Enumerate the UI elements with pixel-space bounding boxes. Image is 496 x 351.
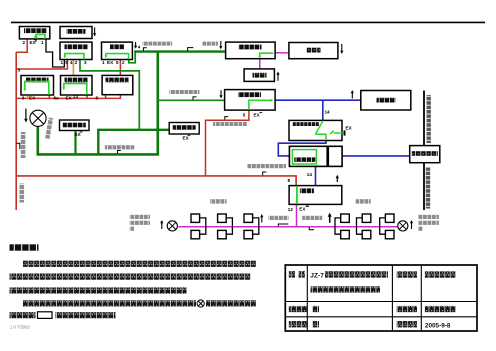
cell 名称 <box>289 271 295 277</box>
arrow up on blue before B14 <box>351 90 354 99</box>
brake cylinder unit B3 <box>380 214 394 239</box>
brake cylinder unit B1 <box>335 214 349 239</box>
svg-text:3: 3 <box>22 95 25 100</box>
rule: cab end 2 vertical line <box>423 163 425 210</box>
label 制动缸2 <box>356 199 371 203</box>
cock 折角塞门 on green bus <box>188 48 194 51</box>
wire: red branch from brake valve B1 port 2 <box>16 39 27 52</box>
wire: red pipe through valve B7 from relay valve B4 <box>119 60 121 76</box>
svg-text:EX: EX <box>254 112 261 117</box>
cell 制图者 <box>289 321 308 327</box>
cell 制图时间 <box>397 321 417 327</box>
wire: middle-pressure pipe 4 (orange) to valve B6 <box>72 60 74 76</box>
reversing valve B18 第一交向阀 <box>410 146 440 163</box>
wire: thick green vertical x157.8 <box>157 52 160 156</box>
svg-text:2: 2 <box>23 40 26 45</box>
svg-text:13: 13 <box>73 94 79 99</box>
legend gauge symbol <box>197 300 204 307</box>
label 分配阀列车管塞门 <box>169 90 199 94</box>
brake cylinder B13 制动缸 <box>244 69 274 82</box>
solenoid valve B15 DBE气动电磁阀 <box>289 120 346 140</box>
legend line 1 <box>23 261 256 267</box>
svg-text:5: 5 <box>65 60 68 65</box>
wire: red bus y98.4 under row-2 valves <box>16 97 121 99</box>
svg-text:EX: EX <box>30 40 37 45</box>
wire: equalizing-reservoir pipe 1 (black) B1 to B3 <box>46 39 64 67</box>
arrow up bold cluster B left <box>328 213 332 223</box>
distributor B10 机车分配阀 <box>225 90 276 111</box>
valve B3 支配拉摆阀 <box>60 42 92 59</box>
svg-text:8a: 8a <box>54 95 60 100</box>
arrow up above B17 <box>336 175 339 182</box>
label 作用阀总风缸支管塞门 <box>248 164 287 168</box>
svg-text:3: 3 <box>18 68 21 73</box>
label 一端司机室制动缸压力表 (3 lines) <box>130 215 151 231</box>
label 中继阀列车管塞门 <box>143 42 173 46</box>
arrow down right of B4 with port 4 <box>134 42 137 49</box>
svg-text:EX: EX <box>29 95 36 100</box>
wire: thick green drop x98.3 <box>97 129 99 156</box>
svg-text:EX: EX <box>75 132 82 137</box>
border top rule <box>11 21 485 23</box>
wire: magenta drop B11 to brake cylinder B13 <box>259 59 261 69</box>
vertical label on left bus (lower) <box>20 184 25 203</box>
svg-text:3: 3 <box>84 60 87 65</box>
reservoir B14 作用风缸 <box>361 91 411 111</box>
reservoir B12 副风缸 <box>289 43 338 59</box>
legend line 3 <box>10 287 187 293</box>
arrow up right of B13 <box>276 72 279 81</box>
wire: red horizontal branch y69 to valve B3 port 5 <box>16 60 67 69</box>
gauge G2 brake cylinder pressure gauge (end 1) <box>167 221 177 231</box>
cell 设计者 <box>289 306 308 312</box>
label 折角塞门() <box>202 42 218 46</box>
svg-text:1: 1 <box>61 60 64 65</box>
valve B6 客货车转换 <box>61 76 93 96</box>
cell 机务段教育室 row2 <box>425 306 456 312</box>
label 后台车塞门 <box>302 216 322 220</box>
cock on left red bus <box>16 143 20 149</box>
legend line 5a <box>10 312 36 318</box>
gauge G1 train pipe pressure gauge <box>30 110 46 126</box>
arrow down right of B2 <box>93 28 96 37</box>
wire: brake cylinder pipe 12 (magenta) B11 to aux reservoir B12 <box>275 52 289 54</box>
wire: blue B16 to first reversing valve B18 <box>342 155 410 157</box>
cell 周 <box>313 306 319 312</box>
title table frame <box>285 265 477 331</box>
wire: green branch pipe 3 to locomotive distributor B10 <box>158 99 225 101</box>
cock 中继阀列车管塞门 on green bus <box>143 48 146 51</box>
cock 3阀间列车管塞门 <box>117 151 120 154</box>
arrow up left of gauge G2 <box>160 220 163 229</box>
wire: magenta drop from action valve B17 <box>296 204 298 226</box>
wire: thick green drop from gauge G1 <box>36 126 39 155</box>
valve B9 紧急放风阀 <box>169 123 199 135</box>
wire: brake cylinder magenta bus y226.8 <box>178 226 397 228</box>
action valve B17 作用阀 <box>289 186 342 205</box>
arrow down right of B12 <box>340 44 343 54</box>
distributor B11 车辆分配阀 <box>226 42 276 59</box>
wire: main-reservoir pipe (red) left vertical bus <box>15 52 17 210</box>
relay valve B4 中继阀 <box>102 42 133 59</box>
wire: red from distributing valve B10 down-left <box>206 110 249 176</box>
legend box symbol <box>38 312 53 319</box>
cell 机务段教育室 <box>425 271 456 277</box>
brake cylinder unit A3 <box>244 214 259 239</box>
vertical label on left bus (upper) <box>21 132 26 158</box>
cock 作用阀总风缸支管塞门 <box>263 172 267 175</box>
arrow down left of gauge G1 <box>24 109 27 123</box>
label 分配阀总风缸支管塞门 <box>213 122 247 126</box>
label 前台车塞门 <box>269 216 289 220</box>
arrow down on green bus before B11 <box>219 41 222 49</box>
vertical label cab end 2 <box>426 168 430 209</box>
wire: red drop from valve B7 left port <box>105 95 107 99</box>
wire: train pipe thick green bus y51.6 to wagon distributor B11 <box>134 50 225 52</box>
svg-text:1 0 7/2002: 1 0 7/2002 <box>10 325 30 330</box>
brake cylinder unit A2 <box>218 214 233 239</box>
orange port dot under B5 <box>27 96 29 99</box>
wire: pipe 14 (blue) distributor B10 to action reservoir B14 <box>275 99 361 101</box>
cell title 自阀手柄置于常用制动位 <box>311 286 381 292</box>
valve B8 自阀放风阀 <box>60 120 90 131</box>
legend line 4a <box>23 300 196 306</box>
svg-text:EX: EX <box>107 60 114 65</box>
gauge G3 brake cylinder pressure gauge (end 2) <box>398 221 408 231</box>
svg-text:EX: EX <box>346 126 353 131</box>
legend line 2 <box>10 274 251 280</box>
wire: thick green horizontal y129.8 <box>98 129 169 131</box>
arrow up cluster A right <box>260 214 263 223</box>
svg-text:12: 12 <box>288 207 294 212</box>
cock 后台车塞门 <box>309 227 314 230</box>
svg-text:EX: EX <box>66 95 73 100</box>
cell 周 row3 <box>313 321 319 327</box>
legend line 4b <box>206 300 256 306</box>
svg-text:8: 8 <box>96 96 99 101</box>
svg-text:2: 2 <box>122 60 125 65</box>
arrow up right of gauge G3 <box>410 220 413 229</box>
cock 分配阀总风缸支管塞门 <box>225 117 228 120</box>
reversing valve B16 第二交向阀 <box>289 146 342 166</box>
EX tick marks <box>34 39 37 41</box>
wire: red drop from valve B5 <box>48 95 50 99</box>
valve B7 总风缸断阀 <box>102 75 133 94</box>
svg-text:EX: EX <box>299 206 306 211</box>
svg-text:EX: EX <box>183 135 190 140</box>
svg-text:2005-9-8: 2005-9-8 <box>425 322 451 329</box>
valve B5 缓解控制阀 <box>21 76 54 96</box>
svg-text:5: 5 <box>243 112 246 117</box>
vertical label 列车管压力表 near gauge G1 <box>45 118 53 139</box>
cell 设计单位 <box>397 271 417 277</box>
vertical label cab end 1 <box>427 95 431 143</box>
wire: relay valve B4 green exit jog <box>129 52 135 63</box>
svg-text:2: 2 <box>75 60 78 65</box>
arrow down on green branch before B10 <box>219 90 222 98</box>
svg-text:1: 1 <box>41 40 44 45</box>
wire: blue path solenoid valve B15 to reversing valve B16 <box>278 141 326 156</box>
wire: green drop from release valve B8 <box>74 131 76 156</box>
svg-text:8: 8 <box>288 178 291 183</box>
svg-text:14: 14 <box>307 172 313 177</box>
wire: train pipe thick green bus y154.4 <box>37 153 160 156</box>
svg-text:4: 4 <box>70 60 73 65</box>
legend line 5b <box>56 312 116 318</box>
svg-text:5: 5 <box>116 60 119 65</box>
brake cylinder unit A1 <box>191 214 206 239</box>
wire: blue drop to solenoid valve B15 <box>322 100 324 120</box>
svg-text:1: 1 <box>102 60 105 65</box>
svg-text:14: 14 <box>325 110 331 115</box>
label 制动缸1 <box>210 199 227 203</box>
cock 前台车塞门 <box>278 224 288 226</box>
svg-text:4: 4 <box>138 45 141 50</box>
reservoir B2 均衡风缸 <box>60 27 92 39</box>
valve B1 自阀阀断门 <box>19 27 49 43</box>
rule: cab end 1 vertical line <box>423 91 425 146</box>
label (3阀间列车管塞门) <box>105 145 135 149</box>
cell 制图单位 <box>397 306 417 312</box>
cock 分配阀列车管塞门 <box>193 97 196 100</box>
brake cylinder unit B2 <box>357 214 371 239</box>
wire: red bus y175.9 to action valve B17 <box>16 176 296 186</box>
svg-text:JZ-7: JZ-7 <box>310 273 324 280</box>
wire: pipe 2 (green) from valve B3 port2 <box>80 60 139 130</box>
wire: blue pipe 14 drop into action valve B17 <box>315 166 317 185</box>
wire: red drop from valve B6 <box>86 95 88 99</box>
label 二端司机室制动缸压力表 (3 lines) <box>418 215 439 231</box>
legend title 图示说明 <box>10 244 39 250</box>
